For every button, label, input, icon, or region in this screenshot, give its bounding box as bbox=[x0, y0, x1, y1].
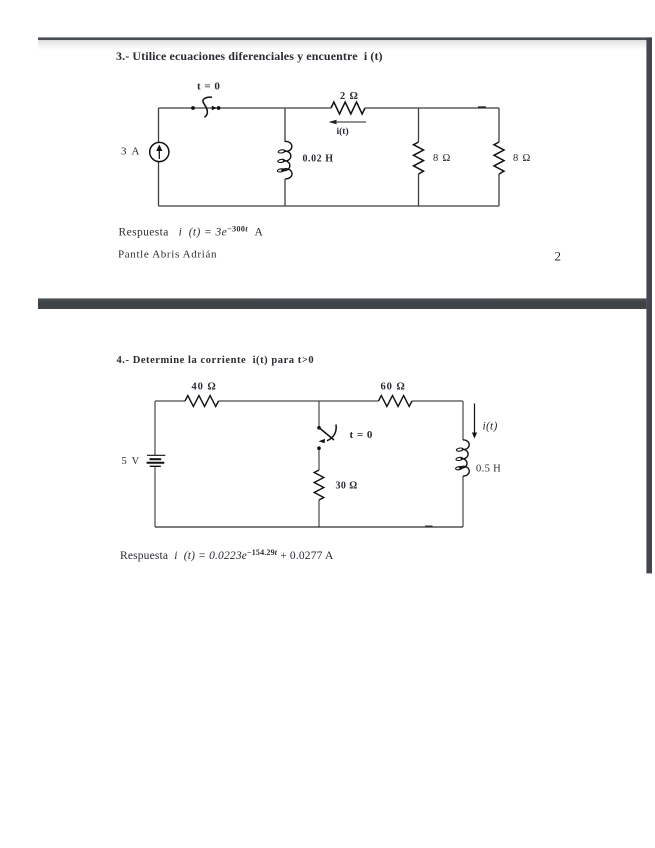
svg-text:Pantle Abris Adrián: Pantle Abris Adrián bbox=[118, 249, 217, 261]
resistor R4 40 ohm label bbox=[192, 381, 217, 392]
svg-text:3.- Utilice ecuaciones diferen: 3.- Utilice ecuaciones diferenciales y e… bbox=[116, 49, 383, 63]
svg-text:i(t): i(t) bbox=[483, 421, 498, 433]
svg-text:60 Ω: 60 Ω bbox=[381, 381, 406, 392]
wire: right rail upper bbox=[498, 108, 500, 142]
answer line page 1 bbox=[119, 225, 264, 239]
svg-text:5 V: 5 V bbox=[122, 456, 141, 467]
wire: middle branch lower bbox=[318, 500, 320, 527]
switch S1 label t=0 bbox=[197, 81, 220, 93]
svg-text:t = 0: t = 0 bbox=[350, 429, 373, 441]
label 5 V bbox=[122, 456, 141, 467]
title: problem 4 text bbox=[117, 355, 315, 366]
svg-text:2: 2 bbox=[555, 249, 562, 264]
label i(t) italic bbox=[483, 421, 498, 433]
wire: middle branch upper bbox=[318, 401, 320, 426]
svg-text:Respuesta i (t) = 0.0223e−15: Respuesta i (t) = 0.0223e−154.29t + 0.02… bbox=[120, 548, 334, 562]
wire: left rail lower bbox=[158, 162, 160, 207]
resistor R3 8 ohm (vertical zigzag, right rail) bbox=[494, 142, 504, 174]
wire: branch of first 8 ohm resistor upper bbox=[418, 108, 420, 142]
label i(t) bbox=[337, 126, 349, 137]
svg-text:t = 0: t = 0 bbox=[197, 81, 220, 93]
label 3 A bbox=[121, 146, 141, 158]
label 0.5 H bbox=[476, 464, 501, 475]
wire: bottom wire bbox=[159, 205, 500, 207]
resistor R6 30 ohm (vertical zigzag) bbox=[314, 470, 324, 500]
label 8 ohm (first) bbox=[433, 153, 451, 164]
svg-text:2 Ω: 2 Ω bbox=[340, 91, 359, 102]
wire: left rail lower bbox=[154, 467, 156, 528]
switch S1 (opens at t=0) on top wire bbox=[191, 97, 220, 117]
wire: top wire left segment (node A to resistor) bbox=[159, 107, 332, 109]
viewer top edge line bbox=[38, 37, 652, 50]
current arrow i(t) pointing left bbox=[329, 120, 367, 125]
current source I1 3A (circle with up arrow) bbox=[150, 142, 169, 161]
svg-text:4.- Determine la corriente i(: 4.- Determine la corriente i(t) para t>0 bbox=[117, 355, 315, 366]
page number 2 bbox=[555, 249, 562, 264]
wire overlap artifact above top wire bbox=[478, 106, 486, 108]
title: problem 3 text bbox=[116, 49, 383, 63]
wire: right rail lower bbox=[462, 476, 464, 527]
wire: top wire right segment (resistor to right rail) bbox=[365, 107, 499, 109]
wire: bottom wire bbox=[155, 526, 463, 528]
resistor R1 2 ohm (horizontal zigzag) bbox=[331, 102, 365, 114]
wire: middle branch between switch and resistor bbox=[318, 450, 320, 471]
answer line page 2 bbox=[120, 548, 334, 562]
svg-text:0.02 H: 0.02 H bbox=[303, 154, 334, 165]
svg-text:30 Ω: 30 Ω bbox=[336, 481, 358, 492]
wire: middle branch upper bbox=[284, 108, 286, 142]
resistor R1 2 ohm label bbox=[340, 91, 359, 102]
svg-text:0.5 H: 0.5 H bbox=[476, 464, 501, 475]
current arrow i(t) pointing down (right rail) bbox=[472, 404, 477, 439]
resistor R5 60 ohm label bbox=[381, 381, 406, 392]
wire: top wire segment left bbox=[155, 400, 185, 402]
wire: left rail upper bbox=[154, 401, 156, 455]
dark band between pages bbox=[38, 298, 646, 309]
voltage source V1 5V battery bbox=[147, 455, 166, 466]
inductor L1 0.02 H (vertical coil) bbox=[277, 141, 292, 178]
wire: top wire right segment bbox=[412, 400, 463, 402]
wire: right rail lower bbox=[498, 174, 500, 206]
wire overlap artifact on bottom wire bbox=[425, 525, 433, 527]
wire: branch of first 8 ohm resistor lower bbox=[418, 174, 420, 206]
resistor R2 8 ohm (vertical zigzag) bbox=[414, 142, 424, 174]
label 0.02 H bbox=[303, 154, 334, 165]
label t=0 (switch 2) bbox=[350, 429, 373, 441]
viewer right dark bar bbox=[646, 37, 652, 573]
wire: top wire middle segment bbox=[219, 400, 379, 402]
switch S2 (closes at t=0) on middle branch bbox=[317, 425, 336, 451]
svg-text:8 Ω: 8 Ω bbox=[433, 153, 451, 164]
wire: left rail upper bbox=[158, 108, 160, 143]
label 30 ohm bbox=[336, 481, 358, 492]
author name bbox=[118, 249, 217, 261]
svg-text:40 Ω: 40 Ω bbox=[192, 381, 217, 392]
wire: right rail upper bbox=[462, 401, 464, 440]
wire: middle branch lower bbox=[284, 179, 286, 206]
svg-text:8 Ω: 8 Ω bbox=[513, 153, 531, 164]
resistor R5 60 ohm (horizontal zigzag) bbox=[379, 396, 412, 407]
resistor R4 40 ohm (horizontal zigzag) bbox=[185, 396, 219, 407]
svg-text:3 A: 3 A bbox=[121, 146, 141, 158]
inductor L2 0.5 H (vertical coil on right rail) bbox=[455, 440, 469, 476]
label 8 ohm (second) bbox=[513, 153, 531, 164]
svg-text:Respuesta i (t) = 3e−300t: Respuesta i (t) = 3e−300t A bbox=[119, 225, 264, 239]
svg-text:i(t): i(t) bbox=[337, 126, 349, 137]
